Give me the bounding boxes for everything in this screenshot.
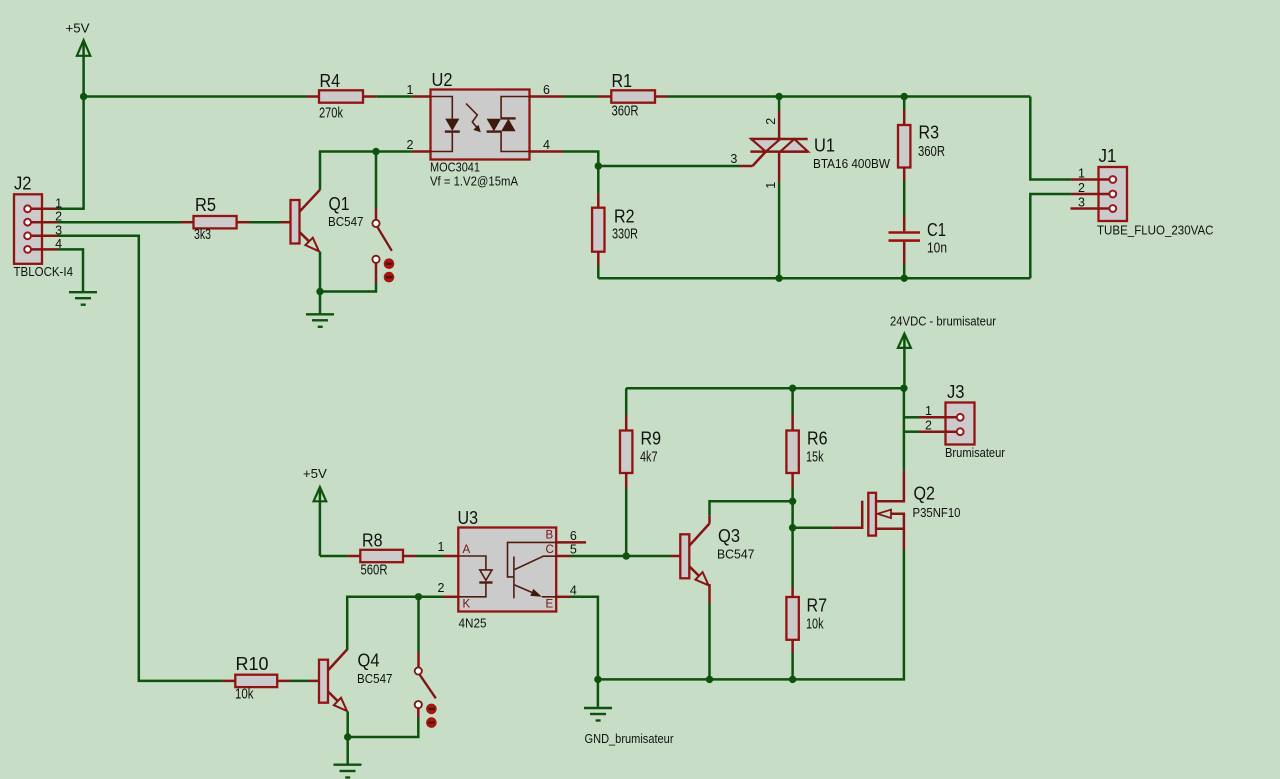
power +5V symbol (lower)	[303, 466, 327, 556]
svg-text:Q1: Q1	[329, 193, 350, 214]
svg-text:Q3: Q3	[718, 525, 740, 546]
node triac pin2 / top rail	[775, 93, 782, 100]
power 24VDC - brumisateur	[890, 314, 997, 389]
U3 internal phototransistor	[508, 542, 557, 598]
wire R3 to C1	[903, 181, 906, 216]
svg-text:C: C	[546, 544, 554, 556]
node +5V / top rail junction	[80, 93, 87, 100]
wire gate node down to R2	[597, 166, 600, 194]
ground GND_brumisateur	[584, 679, 674, 746]
svg-text:10k: 10k	[235, 687, 254, 703]
U3 internal LED	[458, 556, 492, 597]
svg-text:10n: 10n	[927, 241, 947, 257]
svg-text:1: 1	[925, 404, 932, 418]
wire Q2 source down to bottom net	[598, 550, 904, 679]
svg-text:3: 3	[730, 152, 737, 166]
wire U3 pin5 to Q3 base	[570, 555, 671, 558]
node Q4 emitter junction	[344, 733, 351, 740]
resistor R10	[222, 653, 290, 703]
U3 pin 4 lead (E)	[556, 596, 570, 599]
transistor Q4 BC547	[309, 647, 393, 712]
node R7 / bottom net	[789, 676, 796, 683]
wire Q4 emitter down	[346, 712, 349, 738]
resistor R5	[181, 194, 250, 243]
connector J2 TBLOCK-I4	[14, 173, 74, 280]
U3 pin 2 lead (K)	[443, 596, 458, 599]
resistor R9	[620, 388, 661, 488]
svg-text:A: A	[463, 544, 471, 556]
wire 24V rail	[626, 387, 904, 390]
svg-text:B: B	[546, 530, 554, 542]
svg-text:10k: 10k	[806, 617, 824, 633]
svg-text:R3: R3	[919, 122, 940, 143]
U2 internal triac	[487, 97, 530, 152]
svg-text:2: 2	[1078, 181, 1085, 195]
optocoupler U3 4N25 body	[458, 507, 557, 631]
svg-text:6: 6	[570, 529, 577, 543]
resistor R1	[598, 70, 668, 120]
power +5V symbol top-left	[66, 21, 91, 97]
wire gate node to U1 gate	[598, 165, 739, 168]
svg-text:BC547: BC547	[717, 547, 755, 562]
svg-text:C1: C1	[927, 219, 946, 240]
wire +5V down to J2 pin1	[58, 97, 84, 209]
node triac pin1 / bottom rail	[775, 275, 782, 282]
svg-text:+5V: +5V	[303, 466, 327, 481]
U3 pin 1 lead (A)	[443, 555, 458, 558]
svg-text:K: K	[463, 599, 471, 611]
svg-text:Vf = 1.V2@15mA: Vf = 1.V2@15mA	[430, 174, 518, 189]
svg-text:1: 1	[1078, 167, 1085, 181]
svg-text:Q4: Q4	[358, 650, 380, 671]
svg-text:2: 2	[438, 581, 445, 595]
U2 internal light arrow	[466, 104, 481, 133]
wire R4 to U2 pin1	[376, 95, 411, 98]
svg-text:3: 3	[1078, 196, 1085, 210]
svg-text:4k7: 4k7	[640, 450, 658, 466]
wire R1 to right corner	[668, 95, 1031, 98]
optocoupler U2 MOC3041 body	[430, 69, 530, 189]
wire Q3 emitter down	[708, 584, 711, 603]
resistor R4	[306, 70, 376, 122]
U2 pin 6 lead	[530, 95, 564, 98]
resistor R2	[592, 194, 638, 266]
node 24V / R6	[789, 385, 796, 392]
wire triac pin1 to bottom rail	[778, 183, 781, 279]
wire C1 to bottom rail	[903, 265, 906, 279]
svg-text:2: 2	[407, 138, 414, 152]
svg-text:U3: U3	[458, 507, 479, 528]
capacitor C1	[889, 216, 948, 265]
triac U1 BTA16	[730, 97, 890, 189]
svg-text:P35NF10: P35NF10	[913, 505, 961, 520]
transistor Q3 BC547	[671, 515, 755, 585]
svg-text:4N25: 4N25	[459, 616, 487, 631]
wire J2 pin3 long run to R10	[58, 236, 223, 681]
svg-text:J1: J1	[1099, 145, 1117, 166]
wire R10 to Q4 base	[290, 680, 309, 683]
wire switch bottom to emitter junction	[348, 718, 419, 738]
connector J3 Brumisateur	[919, 381, 1006, 460]
wire R2 bottom to bottom rail	[597, 266, 600, 279]
op-to U2 pin 1 lead	[412, 95, 431, 98]
svg-text:15k: 15k	[806, 450, 824, 466]
transistor Q1 BC547	[281, 190, 364, 252]
wire Q1 collector to U2 pin2, with switch branch	[320, 152, 412, 190]
svg-text:U2: U2	[432, 69, 453, 90]
svg-text:R10: R10	[236, 653, 269, 674]
resistor R8	[347, 530, 416, 579]
node 24V / J3	[900, 385, 907, 392]
U3 pin 6 lead (B)	[556, 541, 586, 544]
node GND_brumisateur	[594, 676, 601, 683]
switch contact (Q4 stage)	[415, 597, 437, 728]
svg-text:R6: R6	[807, 428, 828, 449]
svg-text:BC547: BC547	[328, 214, 364, 229]
svg-text:Brumisateur: Brumisateur	[945, 445, 1006, 460]
svg-text:BTA16 400BW: BTA16 400BW	[813, 156, 891, 171]
node Q3 emitter / bottom net	[706, 676, 713, 683]
svg-text:360R: 360R	[612, 104, 639, 120]
svg-text:1: 1	[438, 540, 445, 554]
wire Q3 collector up to node	[710, 501, 793, 515]
wire R6 bottom to collector node	[791, 489, 794, 502]
node gate / R7	[789, 524, 796, 531]
svg-text:J3: J3	[947, 381, 965, 402]
svg-text:R5: R5	[195, 194, 216, 215]
svg-text:R8: R8	[362, 530, 383, 551]
svg-text:R7: R7	[807, 595, 828, 616]
wire U3 pin2 net / Q4 collector	[347, 597, 443, 647]
svg-text:U1: U1	[814, 135, 835, 156]
svg-text:R1: R1	[612, 70, 633, 91]
node Q3 collector / R6	[789, 498, 796, 505]
svg-text:5: 5	[570, 542, 577, 556]
ground (Q1 emitter)	[306, 314, 334, 327]
ground (J2 pin4)	[69, 292, 97, 305]
ground (Q4 emitter)	[334, 737, 362, 778]
wire R8 to U3 pin1	[416, 555, 443, 558]
U2 pin 2 lead	[412, 150, 431, 153]
MOSFET Q2 P35NF10	[833, 471, 961, 550]
wire R9 bottom to pin5 net	[625, 489, 628, 557]
wire U3 pin4 down to GND node	[570, 597, 598, 680]
wire +5V to R8	[320, 555, 347, 558]
svg-text:R9: R9	[641, 428, 662, 449]
svg-text:3k3: 3k3	[194, 227, 211, 243]
svg-text:2: 2	[764, 118, 778, 125]
svg-text:270k: 270k	[319, 106, 344, 122]
svg-text:4: 4	[570, 583, 577, 597]
switch contact (Q1 stage)	[372, 152, 394, 284]
svg-text:1: 1	[55, 196, 62, 210]
wire bottom rail (R2 to J1 branch)	[598, 277, 1030, 280]
svg-text:6: 6	[543, 83, 550, 97]
svg-text:4: 4	[543, 138, 550, 152]
connector J1 TUBE_FLUO_230VAC	[1071, 145, 1214, 238]
node R3 top rail	[901, 93, 908, 100]
svg-text:2: 2	[925, 419, 932, 433]
resistor R3	[898, 97, 945, 182]
node R9 / U3 pin5 net	[623, 552, 630, 559]
svg-text:+5V: +5V	[66, 21, 90, 36]
U2 internal LED	[431, 97, 460, 152]
node switch branch	[372, 148, 379, 155]
svg-text:R2: R2	[614, 206, 635, 227]
svg-text:E: E	[546, 599, 554, 611]
svg-text:1: 1	[764, 182, 778, 189]
wire J1 pin2 down to bottom rail	[1030, 194, 1071, 278]
wire J2 pin2 to R5	[58, 221, 181, 224]
node C1 / bottom rail	[901, 275, 908, 282]
svg-text:J2: J2	[14, 173, 32, 194]
U3 pin 5 lead (C)	[556, 555, 570, 558]
wire R5 to Q1 base	[250, 221, 281, 224]
resistor R6	[786, 388, 827, 488]
wire U2 pin4 to gate node	[563, 152, 598, 167]
wire collector node to gate node	[791, 501, 794, 528]
wire J2 pin4 to ground	[58, 249, 84, 291]
svg-text:TUBE_FLUO_230VAC: TUBE_FLUO_230VAC	[1097, 223, 1214, 238]
svg-text:24VDC - brumisateur: 24VDC - brumisateur	[890, 314, 997, 329]
svg-text:360R: 360R	[918, 144, 945, 160]
wire gate node to Q2 gate	[793, 526, 833, 529]
U2 pin 4 lead	[530, 150, 564, 153]
svg-text:R4: R4	[320, 70, 341, 91]
svg-text:Q2: Q2	[914, 483, 936, 504]
svg-text:1: 1	[407, 83, 414, 97]
svg-text:560R: 560R	[361, 563, 388, 579]
svg-text:TBLOCK-I4: TBLOCK-I4	[14, 264, 74, 279]
node U3 pin2 / switch branch	[415, 593, 422, 600]
resistor R7	[786, 528, 827, 653]
wire to J1 pin1	[1030, 97, 1071, 180]
node R2 top / triac gate	[595, 162, 602, 169]
svg-text:BC547: BC547	[357, 671, 393, 686]
wire Q1 emitter down / switch bottom	[319, 252, 322, 315]
wire U2 pin6 to R1	[563, 95, 598, 98]
svg-text:330R: 330R	[612, 227, 638, 243]
wire J3 pins / Q2 drain vertical	[904, 388, 919, 471]
svg-text:GND_brumisateur: GND_brumisateur	[585, 731, 675, 746]
wire top rail segment A	[84, 95, 306, 98]
node Q1 emitter junction	[316, 288, 323, 295]
svg-text:MOC3041: MOC3041	[430, 160, 480, 175]
wire R7 to bottom net	[791, 653, 794, 680]
